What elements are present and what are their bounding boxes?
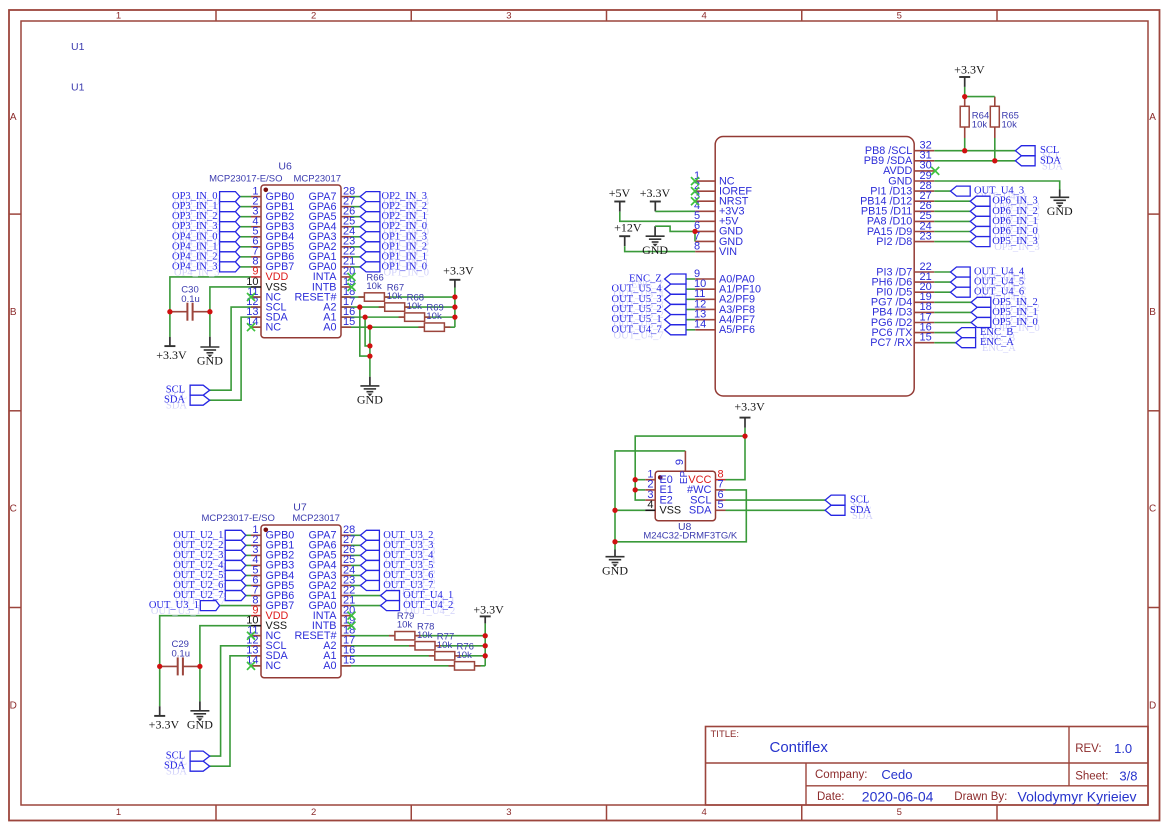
svg-text:SDA: SDA [689,505,712,517]
wire OUT_U3_1 flag to U7 pin8 [220,605,251,607]
resistor R78 [409,621,441,650]
OP6/OP5 port labels pins 27-23 [992,196,1040,253]
svg-text:10k: 10k [1002,120,1018,131]
svg-text:SDA: SDA [1040,155,1061,166]
svg-text:1.0: 1.0 [1114,741,1132,756]
svg-text:SDA: SDA [164,761,185,772]
frame column ticks bottom [216,805,997,821]
+3.3V power symbol above U8 [734,399,765,417]
resistor R79 [389,611,421,640]
wire +3.3V symbol to MCU pin4 [655,202,695,212]
svg-text:GND: GND [602,563,628,577]
svg-text:+3.3V: +3.3V [734,399,765,413]
svg-text:REV:: REV: [1075,743,1101,755]
wire U8 SDA pin5 to flag [726,509,826,511]
wire SCL flag to U7 pin12 [210,646,251,756]
SCL port flag right of MCU [1015,146,1035,156]
MCU right pin stubs 22-15 [914,272,934,343]
svg-text:5: 5 [897,10,902,21]
resistor R67 [379,283,411,312]
svg-text:OP1_IN_0: OP1_IN_0 [382,261,428,272]
+3.3V power symbol below C30 [156,337,187,362]
GND symbol below U8 [606,557,625,563]
svg-text:NC: NC [266,321,282,333]
frame row letters left [10,112,17,711]
svg-text:+3.3V: +3.3V [640,186,671,200]
svg-text:9: 9 [674,459,686,465]
svg-text:PC7 /RX: PC7 /RX [870,337,912,349]
GND symbol below C30 [209,337,211,347]
svg-text:+12V: +12V [614,221,642,235]
frame row letters right [1149,112,1156,711]
U6 right port flags OP2/OP1 [360,192,380,272]
wire +5V symbol to MCU pin5 [620,202,695,222]
frame column numbers top [116,10,902,21]
svg-text:3/8: 3/8 [1119,769,1137,784]
U6 left pin names [266,191,295,334]
wires MCU pins 27-23 to OP flags [934,201,970,241]
OP5_IN_2/1/0 port labels [992,297,1040,334]
wire C29 right to GND symbol [199,666,201,701]
svg-text:OP5_IN_3: OP5_IN_3 [992,236,1038,247]
frame row ticks right [1148,214,1160,607]
svg-text:10k: 10k [366,281,382,292]
svg-text:OP4_IN_3: OP4_IN_3 [172,261,218,272]
svg-text:3: 3 [506,10,511,21]
GND symbol below C29 [199,701,201,710]
OUT_U3_1 port flag at U7 pin8 [200,601,219,611]
wire U6 A0 row through R69 to rail [251,326,455,328]
U7 no-connect X INTA pin20 [348,612,356,620]
wire +3.3V to U8 E0 E1 E2 [635,436,745,500]
U6 no-connect X pin11 [247,293,255,301]
svg-text:2: 2 [311,10,316,21]
IC U7 MCP23017 body [261,525,341,678]
MCU left port labels [612,274,665,342]
wire U6 A1 branch down to GND [365,317,370,346]
wires MCU pins 19-17 to OP5 flags [934,302,971,322]
wire U6 A2 branch down to GND [360,307,370,356]
U8 left pin stubs [645,480,655,511]
svg-text:ENC_A: ENC_A [980,337,1014,348]
wire U6 VDD pin9 to C30 left [170,277,251,312]
svg-text:A5/PF6: A5/PF6 [719,324,755,336]
wire SDA flag to U7 pin13 [210,656,251,766]
svg-text:MCP23017: MCP23017 [294,173,342,184]
U8 left pin numbers [647,469,653,512]
junction dots around MCU [692,94,997,234]
svg-text:3: 3 [506,807,511,818]
wire MCU pin32 to SCL flag [934,150,1015,152]
capacitor C29 [160,639,200,675]
svg-text:A0: A0 [323,321,336,333]
wire U7 VDD pin9 to C29 left [160,616,251,667]
wire C30 left to +3.3V symbol [169,312,171,337]
MCU no-connect X pin1 [691,177,699,185]
ENC_B ENC_A port flags pins 16-15 [956,328,976,348]
+5V power symbol [609,186,631,201]
svg-text:1: 1 [116,807,121,818]
svg-text:Cedo: Cedo [881,767,912,782]
U6 right pin numbers 28-15 [343,185,355,328]
wire MCU pin31 to SDA flag [934,160,1015,162]
U7 right port flags OUT_U3 [360,530,379,590]
MCU left pin stubs 1-8 [695,181,715,251]
svg-text:OUT_U4_2: OUT_U4_2 [403,600,453,611]
OUT_U4_1 and OUT_U4_2 port flags [381,591,400,611]
frame row ticks left [9,214,21,607]
wire +3.3V to R64 R65 tops [965,87,995,97]
wires MCU pins 16-15 to ENC flags [934,333,956,343]
wires U6 left port flags to pins [240,197,251,267]
+3.3V power symbol left of MCU [640,186,671,201]
U6 right port labels [382,191,430,278]
MCU left pin stubs 9-14 [695,279,715,330]
svg-text:0.1u: 0.1u [172,649,191,660]
+3.3V power symbol above R64 [954,62,985,87]
ENC_B ENC_A port labels [980,327,1016,354]
SCL net flag left of U6 [190,385,210,395]
OP6/OP5 port flags pins 27-23 [970,196,990,246]
MCU right pin names [860,145,913,349]
wire U7 VSS pin10 to C29 right [200,626,251,667]
MCU right pin stubs 32-23 [914,151,934,242]
SDA port flag right of MCU [1015,156,1035,166]
U7 right port labels OUT_U3 [383,530,436,597]
svg-text:M24C32-DRMF3TG/K: M24C32-DRMF3TG/K [643,531,738,542]
SCL net flag left of U7 [190,751,210,761]
svg-text:+3.3V: +3.3V [954,62,985,76]
capacitor C30 [170,285,210,321]
svg-text:14: 14 [694,319,706,331]
OUT_U4_3 port flag [951,186,971,196]
svg-text:5: 5 [718,499,724,511]
MCU no-connect X AVDD pin30 [931,167,939,175]
frame column ticks top [216,10,997,21]
+3.3V power symbol right of U7 [473,602,504,623]
svg-text:10k: 10k [457,650,473,661]
svg-text:A: A [1149,112,1156,123]
SDA net flag left of U7 [190,761,210,771]
MCU no-connect X pin2 [691,187,699,195]
wire U6 A0 branch down to GND [369,327,371,377]
svg-text:Company:: Company: [815,769,867,781]
U7 right pin stubs [341,535,351,666]
svg-text:Contiflex: Contiflex [770,739,829,756]
wire U7 A2 row through R78 to rail [251,645,485,647]
svg-text:B: B [1149,307,1156,318]
SCL port flag right of U8 [825,495,845,505]
U8 right pin names [687,474,712,517]
svg-text:10k: 10k [972,120,988,131]
svg-text:8: 8 [694,240,700,252]
wire MCU pin29 GND down [934,181,1059,197]
wire U6 VSS pin10 to C30 right [210,287,251,312]
wire C29 left to +3.3V symbol [159,666,161,706]
svg-text:GND: GND [187,717,213,731]
svg-text:GND: GND [642,243,668,257]
svg-text:A: A [10,112,17,123]
svg-text:GND: GND [197,354,223,368]
OUT_U4_4/5/6 port flags pins 22-20 [951,267,971,297]
svg-text:0.1u: 0.1u [181,294,200,305]
SDA port flag right of U8 [825,505,845,515]
svg-text:C: C [1149,504,1156,515]
svg-text:15: 15 [343,655,355,667]
MCU no-connect X pin3 [691,197,699,205]
svg-text:U1: U1 [71,41,85,53]
U8 right pin stubs [716,480,726,511]
OUT_U4_4/5/6 port labels [974,267,1027,304]
svg-text:SDA: SDA [850,505,871,516]
MCU left pin numbers [694,170,706,331]
U7 no-connect X pin14 [247,662,255,670]
U7 left pin numbers 1-14 [246,524,258,667]
wires U6 right pins to port flags [351,197,360,267]
wire U7 RESET# row through R79 to rail [251,635,485,637]
svg-text:1: 1 [116,10,121,21]
svg-text:5: 5 [897,807,902,818]
U6 no-connect X pin14 [247,323,255,331]
svg-text:Date:: Date: [817,791,845,803]
svg-text:10k: 10k [387,291,403,302]
U8 top pin stub EP [684,451,686,471]
svg-text:4: 4 [701,807,706,818]
svg-text:+3.3V: +3.3V [156,348,187,362]
resistor R76 [449,641,481,670]
svg-text:D: D [1149,700,1156,711]
svg-text:+3.3V: +3.3V [473,602,504,616]
MCU right pin numbers [920,140,932,344]
U7 right pin numbers 28-15 [343,524,355,667]
svg-text:10k: 10k [397,620,413,631]
svg-text:Volodymyr Kyrieiev: Volodymyr Kyrieiev [1018,789,1137,805]
U7 left port labels [173,530,226,607]
svg-text:2: 2 [311,807,316,818]
svg-text:OUT_U3_1: OUT_U3_1 [149,600,199,611]
svg-text:+5V: +5V [609,186,631,200]
svg-text:U1: U1 [71,82,85,94]
svg-text:B: B [10,307,17,318]
OP5_IN_2/1/0 port flags pins 19-17 [971,297,991,327]
svg-text:U7: U7 [293,502,307,514]
U6 right pin names [294,191,337,334]
title block outline [706,727,1149,806]
OUT_U4_1 and OUT_U4_2 port labels [403,590,455,617]
svg-text:23: 23 [920,230,932,242]
U6 no-connect X INTB pin19 [348,283,356,291]
svg-text:MCP23017: MCP23017 [292,513,340,524]
U6 no-connect X INTA pin20 [348,273,356,281]
svg-text:2020-06-04: 2020-06-04 [862,789,934,805]
GND symbol below U6 address pins [369,377,371,386]
wire +3.3V symbol above U8 [744,418,746,437]
U8 left pin names [660,474,682,517]
svg-text:C: C [10,504,17,515]
svg-text:VSS: VSS [660,505,682,517]
wires MCU pins 22-20 to OUT_U4 flags [934,272,950,292]
svg-text:10k: 10k [407,301,423,312]
junction dots around U7 [157,633,488,669]
wires U7 left port flags to pins [246,535,251,595]
U7 left pin names [266,530,295,673]
svg-text:OUT_U4_7: OUT_U4_7 [612,324,662,335]
U7 left pin stubs [251,535,261,666]
+12V power symbol [614,221,642,237]
U7 left port flags OUT_U2 [225,530,246,600]
frame column numbers bottom [116,807,902,818]
wire MCU pin28 to OUT_U4_3 flag [934,190,950,192]
svg-text:15: 15 [343,316,355,328]
svg-text:Drawn By:: Drawn By: [954,791,1007,803]
+3.3V power symbol right of U6 [443,264,474,288]
IC U8 EEPROM body [655,471,715,521]
IC U6 MCP23017 body [261,185,341,338]
wire U8 EP pad and VSS to GND [615,451,685,557]
svg-text:MCP23017-E/SO: MCP23017-E/SO [201,513,274,524]
wire U6 A2 row through R67 to rail [251,306,455,308]
svg-text:D: D [10,700,17,711]
wires MCU left flags to pins 9-14 [686,279,695,330]
svg-text:4: 4 [701,10,706,21]
wire U7 A0 row through R76 to rail [251,665,485,667]
resistor R68 [399,293,431,322]
IC U1 MCU header body [715,137,914,397]
U6 left port flags OP3/OP4 [220,192,240,272]
wire GND symbol to MCU pins 6 and 7 [655,226,695,241]
U8 right pin numbers [718,469,724,512]
svg-text:Sheet:: Sheet: [1075,770,1108,782]
wire SCL flag to U6 pin12 [210,307,251,390]
resistor R64 with leads [960,97,989,151]
svg-text:SDA: SDA [164,395,185,406]
resistor R77 [429,631,461,660]
+3.3V power symbol below C29 [149,706,180,731]
svg-text:10k: 10k [417,630,433,641]
U7 right pin names [294,530,337,673]
svg-text:GND: GND [1047,204,1073,218]
junction dots around U6 [167,294,457,358]
wires U7 right pins to port flags [351,535,381,605]
GND symbol left of MCU [646,236,665,242]
svg-text:VIN: VIN [719,246,737,258]
MCU left pin names [719,175,761,336]
U6 left port labels [172,191,220,278]
MCU left port flags ENC_Z OUT_U5 OUT_U4_7 [665,274,686,335]
wire +3.3V rail right of U7 [484,623,486,665]
svg-text:GND: GND [357,393,383,407]
junction dots around U8 [612,433,747,544]
svg-text:4: 4 [647,499,653,511]
U6 left pin stubs [251,197,261,328]
wire +12V symbol to MCU pin8 VIN [625,236,696,251]
svg-text:U6: U6 [278,161,292,173]
GND symbol right of MCU [1050,197,1069,203]
wire C30 right to GND symbol [209,312,211,337]
svg-text:+3.3V: +3.3V [149,718,180,732]
resistor R66 [358,273,390,302]
svg-text:NC: NC [266,660,282,672]
wire +3.3V to U8 VCC pin8 [726,436,746,480]
resistor R69 [418,303,450,332]
U6 right pin stubs [341,197,351,328]
U6 left pin numbers 1-14 [246,185,258,328]
SDA net flag left of U6 [190,395,210,405]
svg-text:A0: A0 [323,660,336,672]
svg-text:10k: 10k [426,311,442,322]
wire U8 WC pin7 to GND net [615,490,746,542]
svg-text:+3.3V: +3.3V [443,264,474,278]
wire U6 A1 row through R68 to rail [251,316,455,318]
U7 no-connect X pin11 [247,632,255,640]
resistor R65 with leads [990,97,1019,161]
wire U7 A1 row through R77 to rail [251,655,485,657]
U7 no-connect X INTB pin19 [348,622,356,630]
wire +3.3V rail right of U6 [454,288,456,328]
svg-text:PI2 /D8: PI2 /D8 [876,236,912,248]
svg-text:MCP23017-E/SO: MCP23017-E/SO [209,173,282,184]
wire U6 RESET# row through R66 to +3.3V rail [251,296,455,298]
svg-text:15: 15 [920,332,932,344]
svg-text:10k: 10k [437,640,453,651]
wire U8 SCL pin6 to flag [726,499,826,501]
wire SDA flag to U6 pin13 [210,317,251,400]
svg-text:TITLE:: TITLE: [711,729,740,740]
